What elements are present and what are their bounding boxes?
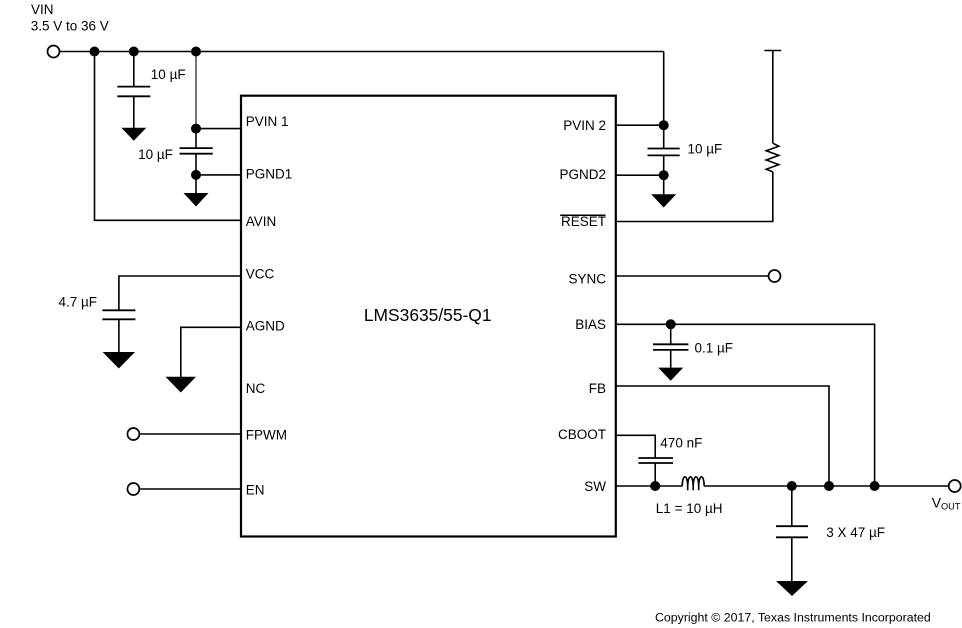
node BIAS cap [666, 319, 676, 329]
ground small C2 [184, 193, 209, 207]
svg-text:CBOOT: CBOOT [558, 427, 606, 442]
capacitor C1 plates [117, 86, 150, 88]
ground small C4 [651, 194, 676, 207]
svg-text:PGND2: PGND2 [559, 167, 606, 182]
ground large C7 [776, 581, 808, 596]
svg-text:3 X 47 µF: 3 X 47 µF [826, 525, 885, 540]
svg-text:VIN: VIN [31, 2, 54, 17]
wire PVIN1 pin [196, 128, 241, 130]
node rail junction 3 [191, 47, 201, 57]
wire FB pin [616, 386, 829, 486]
svg-text:10 µF: 10 µF [688, 142, 723, 157]
wire PVIN2 pin [616, 124, 664, 126]
node rail junction 2 [129, 47, 139, 57]
inductor L1 [682, 477, 704, 490]
wire FPWM pin [140, 433, 241, 435]
wire EN pin [140, 488, 241, 490]
svg-text:10 µF: 10 µF [138, 147, 173, 162]
svg-text:RESET: RESET [561, 214, 606, 229]
svg-text:AGND: AGND [246, 319, 285, 334]
svg-text:FPWM: FPWM [246, 427, 287, 442]
svg-text:PGND1: PGND1 [246, 167, 293, 182]
svg-text:4.7 µF: 4.7 µF [59, 294, 98, 309]
node PGND2 [659, 170, 669, 180]
wire VIN rail [60, 51, 663, 53]
terminal SYNC [769, 270, 781, 282]
wire C7 top [791, 486, 793, 526]
wire SYNC pin [616, 275, 769, 277]
supply rail bar [764, 50, 781, 52]
terminal FPWM [127, 428, 139, 440]
svg-text:EN: EN [246, 483, 265, 498]
svg-text:PVIN 1: PVIN 1 [246, 114, 289, 129]
node PVIN1 [191, 124, 201, 134]
node FB tap [824, 481, 834, 491]
capacitor C1 10uF branch wire top [133, 52, 135, 87]
wire C4 bottom to PGND2 [663, 155, 665, 194]
wire C5 to ground [670, 350, 672, 368]
node PVIN2 [659, 120, 669, 130]
terminal VIN [48, 46, 60, 58]
resistor R1 zigzag [766, 143, 779, 172]
svg-text:PVIN 2: PVIN 2 [563, 118, 606, 133]
terminal EN [127, 483, 139, 495]
node SW cboot [650, 481, 660, 491]
svg-text:BIAS: BIAS [575, 317, 606, 332]
wire BIAS pin [616, 324, 875, 486]
capacitor C5 0.1uF plates [653, 343, 688, 345]
capacitor C2 plates [180, 147, 213, 149]
capacitor C4 10uF plates [648, 148, 680, 150]
svg-text:SYNC: SYNC [568, 272, 606, 287]
wire rail to PVIN2 drop [663, 52, 665, 126]
wire C4 top [663, 125, 665, 148]
ground large C3 [103, 352, 135, 369]
node output cap [787, 481, 797, 491]
wire C7 to ground [791, 537, 793, 581]
wire C6 bottom to SW [654, 463, 656, 486]
wire PGND1 pin [196, 174, 241, 176]
wire AGND [181, 327, 241, 377]
wire C3 to ground [118, 319, 120, 352]
terminal VOUT [949, 480, 961, 492]
svg-text:SW: SW [584, 479, 606, 494]
wire PGND2 pin [616, 174, 664, 176]
svg-text:AVIN: AVIN [246, 214, 277, 229]
wire C2 bottom to PGND1 [195, 154, 197, 194]
capacitor C7 3x47uF plates [776, 525, 808, 527]
svg-text:LMS3635/55-Q1: LMS3635/55-Q1 [364, 305, 492, 325]
svg-text:L1 = 10 µH: L1 = 10 µH [656, 501, 723, 516]
svg-text:3.5 V to 36 V: 3.5 V to 36 V [31, 19, 109, 34]
wire SW to VOUT [704, 485, 949, 487]
node PGND1 [191, 170, 201, 180]
node rail junction 1 [90, 47, 100, 57]
op-amp U1 LMS3635/55-Q1 body [241, 96, 616, 537]
wire CBOOT pin [616, 435, 655, 458]
svg-text:10 µF: 10 µF [151, 67, 186, 82]
wire AVIN feed vertical [95, 52, 242, 221]
pin RESET overline [560, 214, 605, 216]
svg-text:NC: NC [246, 381, 266, 396]
ground small C1 [121, 128, 146, 141]
node BIAS tap [870, 481, 880, 491]
wire SW pin [616, 485, 683, 487]
wire rail to PVIN1 [195, 52, 197, 129]
capacitor C6 470nF plates [638, 457, 673, 459]
svg-text:FB: FB [589, 381, 606, 396]
svg-text:VCC: VCC [246, 266, 275, 281]
wire RESET pin to resistor [616, 172, 773, 222]
wire resistor to supply bar [772, 51, 774, 144]
svg-text:Copyright © 2017, Texas Instru: Copyright © 2017, Texas Instruments Inco… [655, 611, 931, 625]
ground large AGND [166, 377, 197, 393]
ground small C5 [658, 368, 683, 381]
svg-text:470 nF: 470 nF [660, 436, 702, 451]
wire C1 to ground [133, 96, 135, 128]
capacitor C3 4.7uF plates [102, 309, 135, 311]
wire C5 top [670, 324, 672, 344]
wire VCC to C3 [119, 276, 241, 310]
svg-text:0.1 µF: 0.1 µF [695, 341, 734, 356]
